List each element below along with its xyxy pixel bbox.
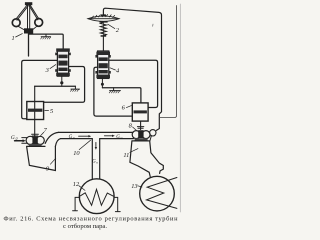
pressure regulator 2 spring stem — [102, 22, 104, 36]
small speck in loop — [152, 24, 154, 26]
rod below spool 4 with pivot — [101, 78, 103, 88]
LP turbine casing 11 — [130, 141, 163, 177]
svg-text:1: 1 — [12, 35, 15, 42]
svg-text:12: 12 — [73, 181, 80, 188]
oil line: spool 4 left port to servo 6 lower port — [94, 67, 132, 116]
governor 1 sleeve — [24, 28, 33, 33]
small neck from valve 8 to turbine 11 — [150, 136, 152, 141]
label 11 — [123, 152, 129, 159]
governor 1 arms — [16, 5, 39, 20]
lever from governor to pilot valve 3 — [29, 34, 63, 49]
pressure regulator 2 spring — [100, 22, 106, 36]
label 12 — [73, 181, 80, 188]
extraction steam pipe 10 bottom walls — [61, 138, 134, 140]
governor 1 drive shaft — [28, 34, 30, 57]
rod below spool 3 with pivot — [61, 76, 63, 86]
steam inlet arrow — [15, 140, 24, 142]
inlet valve 7 — [26, 134, 44, 146]
label 10 — [73, 150, 80, 157]
svg-text:5: 5 — [50, 108, 53, 115]
servo 6 rod down to valve 8 — [140, 121, 142, 130]
label 3 — [45, 67, 49, 74]
governor 1 spindle — [28, 5, 30, 32]
svg-text:Фиг. 216. Схема несвязанного р: Фиг. 216. Схема несвязанного регулирован… — [4, 216, 179, 223]
label 9 — [46, 166, 50, 173]
servomotor 6 — [132, 103, 148, 121]
governor 1 lower links — [18, 26, 38, 31]
label 6 — [122, 105, 126, 112]
label 13 — [131, 183, 137, 190]
oil line: spool 3 left port to servo 5 lower port — [22, 60, 58, 118]
down arrow in branch pipe — [95, 142, 97, 147]
extraction branch pipe to heater — [92, 139, 99, 179]
feedback lever of servomotor 5 — [35, 85, 76, 87]
HP turbine casing 9 — [27, 146, 56, 170]
servomotor 5 piston rod down to valve 7 — [34, 86, 36, 137]
label 1 — [12, 35, 15, 42]
extraction valve 8 — [132, 127, 156, 141]
flow arrow in pipe — [79, 135, 89, 137]
governor 1 top cap — [25, 2, 32, 5]
servomotor 5 — [27, 102, 44, 120]
oil line: spool 3 right port to servo 5 upper port — [44, 67, 85, 103]
label 7 — [44, 127, 48, 134]
label 5 — [45, 110, 49, 112]
pressure regulator 2 diaphragm capsule — [88, 14, 119, 22]
flow label Gт near valve 8 — [116, 135, 123, 140]
regulator rod to spool 4 — [102, 36, 104, 51]
page edge line right — [179, 4, 181, 212]
svg-text:10: 10 — [73, 150, 80, 157]
svg-text:с отбором пара.: с отбором пара. — [63, 223, 107, 230]
oil line: spool 4 right port to servo 6 upper port — [109, 60, 158, 107]
extraction steam pipe 10 top wall — [59, 131, 134, 133]
far right steam line — [159, 6, 176, 118]
fulcrum support of feedback lever — [71, 86, 80, 89]
cooling water zigzag in condenser — [147, 178, 177, 209]
pilot spool valve 3 — [55, 48, 71, 76]
label 2 — [116, 27, 120, 34]
exhaust elbow from turbine 9 — [45, 132, 60, 146]
condenser 13 — [140, 176, 175, 211]
heater left water leg — [73, 197, 80, 210]
heating coil zigzag in heater — [80, 189, 114, 205]
heater right water leg — [114, 197, 120, 211]
fulcrum support of governor lever — [41, 34, 50, 37]
flow label Gт in pipe — [69, 135, 76, 140]
heater 12 — [79, 179, 114, 214]
governor 1 right ball — [35, 19, 43, 27]
label 8 — [129, 123, 133, 130]
fulcrum support of servo 6 lever — [110, 88, 121, 91]
steam inlet G0 label — [11, 135, 18, 141]
second flow arrow in pipe — [104, 135, 112, 137]
pilot spool valve 4 — [95, 51, 110, 78]
flow label Gп in branch pipe — [92, 159, 98, 164]
governor 1 left ball — [12, 19, 20, 27]
svg-text:11: 11 — [123, 152, 129, 159]
feedback lever of servomotor 6 — [102, 88, 140, 103]
svg-text:3: 3 — [45, 67, 49, 74]
pressure regulator 2 impulse pipe — [103, 8, 161, 130]
svg-text:13: 13 — [131, 183, 137, 190]
spring seat of regulator 2 — [101, 35, 107, 37]
inlet pipe to valve 7 — [22, 138, 27, 144]
label 4 — [116, 68, 120, 75]
